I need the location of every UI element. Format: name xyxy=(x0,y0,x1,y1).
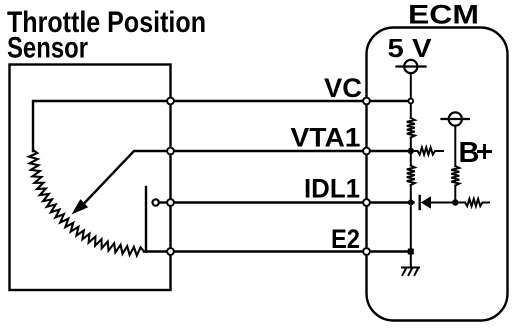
svg-text:IDL1: IDL1 xyxy=(304,174,360,204)
wire IDL1 to E2 xyxy=(410,203,412,252)
resistor R2 (VTA1 to IDL1) xyxy=(407,166,415,186)
svg-text:B: B xyxy=(459,137,480,169)
5V supply terminal xyxy=(404,60,417,73)
node IDL1 junction xyxy=(408,200,414,206)
node IDL1 ECM terminal xyxy=(363,199,370,206)
node VC ECM terminal xyxy=(363,98,370,105)
wire diode to B+ node xyxy=(431,202,465,204)
node E2 ECM terminal xyxy=(363,248,370,255)
node VC sensor terminal xyxy=(167,98,174,105)
node B+ junction xyxy=(452,199,458,205)
label E2 xyxy=(331,224,360,254)
resistor R5 (IDL1 right stub) xyxy=(465,199,489,206)
wire E2 (sensor to ECM) xyxy=(171,250,411,252)
label VTA1 xyxy=(291,123,361,153)
resistor R3 (B+ branch) xyxy=(451,166,459,186)
node IDL1 sensor terminal xyxy=(167,199,174,206)
wiper arrowhead xyxy=(72,199,89,214)
potentiometer resistive track xyxy=(29,150,144,256)
label ECM xyxy=(408,0,479,30)
resistor R4 (VTA1 stub) xyxy=(414,147,443,154)
node VTA1 sensor terminal xyxy=(167,148,174,155)
svg-text:VC: VC xyxy=(324,73,362,103)
label VC xyxy=(324,73,362,103)
label IDL1 xyxy=(304,174,360,204)
node VTA1 ECM terminal xyxy=(363,148,370,155)
sensor body box xyxy=(10,65,171,291)
wire IDL contact to node xyxy=(159,201,171,203)
svg-text:VTA1: VTA1 xyxy=(291,123,361,153)
ground xyxy=(402,268,419,276)
wire track end to E2 node xyxy=(144,250,171,252)
node VC junction xyxy=(408,99,413,104)
wiper arm (VTA1) xyxy=(84,151,171,204)
node E2 sensor terminal xyxy=(167,248,174,255)
svg-text:E2: E2 xyxy=(331,224,360,254)
svg-text:ECM: ECM xyxy=(408,0,479,30)
resistor R1 (VC to VTA1) xyxy=(407,118,415,138)
node VTA1 junction xyxy=(408,148,414,154)
wire VC (sensor to ECM) xyxy=(171,100,412,102)
label B+ xyxy=(459,137,480,169)
diode D1 cathode bar xyxy=(419,196,421,209)
B+ supply terminal xyxy=(449,112,462,125)
label: Throttle Position Sensor title xyxy=(7,6,206,65)
diode D1 xyxy=(421,196,431,209)
wire R1 to VTA1 xyxy=(410,138,412,166)
svg-text:Sensor: Sensor xyxy=(7,32,88,65)
svg-text:5 V: 5 V xyxy=(388,33,433,63)
wire VTA1 (sensor to ECM) xyxy=(171,150,411,152)
wire VC inner (sensor) xyxy=(33,101,171,151)
IDL contact point xyxy=(153,199,159,205)
wire 5V to VC node xyxy=(410,73,412,118)
IDL contact arm xyxy=(145,187,147,252)
label 5 V xyxy=(388,33,433,63)
wire R3 to IDL1 line xyxy=(454,186,456,203)
ECM box xyxy=(367,28,508,321)
wire IDL1 (sensor to ECM) xyxy=(171,201,414,203)
wire B+ terminal to R3 xyxy=(454,126,456,166)
node E2 junction xyxy=(408,249,414,255)
wire E2 to ground xyxy=(410,252,412,268)
wire R2 to IDL1 xyxy=(410,185,412,203)
